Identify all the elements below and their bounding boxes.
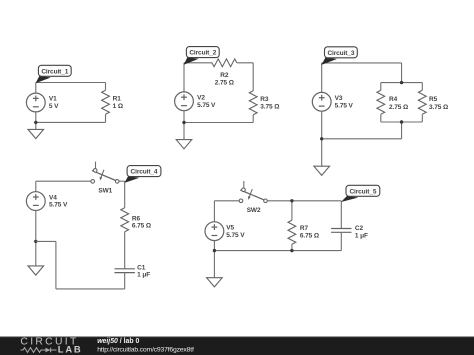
svg-text:http://circuitlab.com/c937f6gz: http://circuitlab.com/c937f6gzex8tf — [97, 346, 194, 353]
svg-text:6.75 Ω: 6.75 Ω — [300, 232, 319, 239]
svg-text:R7: R7 — [300, 225, 309, 232]
svg-text:SW1: SW1 — [98, 187, 112, 194]
svg-text:C1: C1 — [137, 264, 146, 271]
svg-text:Circuit_3: Circuit_3 — [327, 50, 354, 57]
svg-text:R2: R2 — [220, 72, 229, 79]
svg-text:Circuit_1: Circuit_1 — [41, 68, 68, 75]
svg-text:3.75 Ω: 3.75 Ω — [429, 104, 448, 111]
svg-text:1 Ω: 1 Ω — [113, 103, 123, 110]
svg-text:C2: C2 — [355, 225, 364, 232]
svg-text:Circuit_2: Circuit_2 — [189, 50, 216, 57]
svg-text:V3: V3 — [335, 95, 343, 102]
svg-text:weij50 / lab 0: weij50 / lab 0 — [97, 338, 139, 345]
svg-text:3.75 Ω: 3.75 Ω — [260, 103, 279, 110]
svg-text:5.75 V: 5.75 V — [335, 102, 354, 109]
svg-text:Circuit_5: Circuit_5 — [349, 188, 376, 195]
svg-text:V2: V2 — [197, 95, 205, 102]
svg-text:V5: V5 — [226, 225, 234, 232]
svg-text:LAB: LAB — [58, 343, 83, 354]
svg-text:SW2: SW2 — [247, 207, 261, 214]
svg-text:R4: R4 — [389, 96, 398, 103]
svg-text:R1: R1 — [113, 96, 122, 103]
svg-text:5 V: 5 V — [49, 103, 59, 110]
svg-text:R3: R3 — [260, 96, 269, 103]
svg-text:2.75 Ω: 2.75 Ω — [389, 104, 408, 111]
svg-text:R6: R6 — [132, 215, 141, 222]
svg-text:6.75 Ω: 6.75 Ω — [132, 223, 151, 230]
svg-text:1 μF: 1 μF — [137, 272, 150, 279]
svg-text:5.75 V: 5.75 V — [197, 102, 216, 109]
svg-text:5.75 V: 5.75 V — [226, 232, 245, 239]
svg-text:Circuit_4: Circuit_4 — [131, 169, 158, 176]
svg-text:2.75 Ω: 2.75 Ω — [215, 80, 234, 87]
svg-text:R5: R5 — [429, 96, 438, 103]
svg-text:V1: V1 — [49, 96, 57, 103]
svg-text:5.75 V: 5.75 V — [49, 202, 68, 209]
svg-text:V4: V4 — [49, 194, 57, 201]
svg-text:1 μF: 1 μF — [355, 233, 368, 240]
